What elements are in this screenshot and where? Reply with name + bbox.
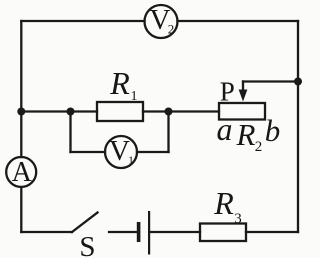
wiper arrowhead bbox=[239, 90, 248, 102]
resistor R3 bbox=[200, 224, 246, 242]
svg-text:S: S bbox=[79, 231, 95, 258]
node junction wiper-right rail bbox=[294, 78, 302, 86]
svg-text:2: 2 bbox=[168, 22, 175, 37]
svg-text:2: 2 bbox=[255, 139, 263, 155]
node junction V1 right bbox=[165, 108, 173, 116]
svg-text:R: R bbox=[236, 117, 256, 152]
resistor R1 bbox=[97, 102, 143, 121]
svg-text:1: 1 bbox=[128, 153, 134, 167]
wire battery to R3 bbox=[151, 231, 201, 233]
wire V1 branch bottom-left bbox=[71, 151, 106, 153]
svg-text:3: 3 bbox=[234, 211, 242, 227]
svg-text:b: b bbox=[265, 113, 281, 148]
svg-text:a: a bbox=[217, 111, 233, 147]
wire top-left segment bbox=[21, 20, 144, 22]
wire V1 branch left vertical bbox=[69, 112, 71, 153]
switch S blade bbox=[72, 213, 98, 233]
wire V1 branch right vertical bbox=[167, 112, 169, 153]
wire R3 to bottom-right corner bbox=[246, 231, 298, 233]
wire middle right (R1 to R2) bbox=[143, 110, 219, 112]
node junction left bbox=[17, 108, 25, 116]
wire wiper vertical bbox=[242, 82, 244, 93]
wire switch to battery bbox=[109, 231, 137, 233]
wire left vertical lower (ammeter to bottom corner) bbox=[20, 187, 22, 232]
svg-text:A: A bbox=[12, 157, 33, 188]
wire left vertical middle (node to ammeter) bbox=[20, 112, 22, 158]
svg-text:R: R bbox=[213, 185, 234, 221]
potentiometer R2 track bbox=[219, 103, 265, 120]
wire top-right segment bbox=[178, 20, 299, 22]
svg-text:1: 1 bbox=[131, 89, 138, 104]
voltmeter V1 circle bbox=[105, 136, 137, 168]
wire left vertical upper (corner to node) bbox=[20, 21, 22, 112]
voltmeter V2 circle bbox=[145, 5, 178, 38]
wire V1 branch bottom-right bbox=[137, 151, 169, 153]
wire right vertical bbox=[297, 21, 299, 232]
wire wiper horizontal bbox=[243, 80, 298, 82]
ammeter A circle bbox=[6, 157, 36, 187]
battery long thin plate bbox=[148, 211, 150, 255]
battery short thick plate bbox=[137, 222, 141, 242]
node junction V1 left bbox=[67, 108, 75, 116]
svg-text:R: R bbox=[109, 65, 130, 101]
wire bottom left (corner to switch) bbox=[21, 231, 72, 233]
wire middle left (node to R1) bbox=[21, 110, 97, 112]
svg-text:P: P bbox=[220, 77, 235, 107]
svg-text:V: V bbox=[109, 135, 130, 167]
